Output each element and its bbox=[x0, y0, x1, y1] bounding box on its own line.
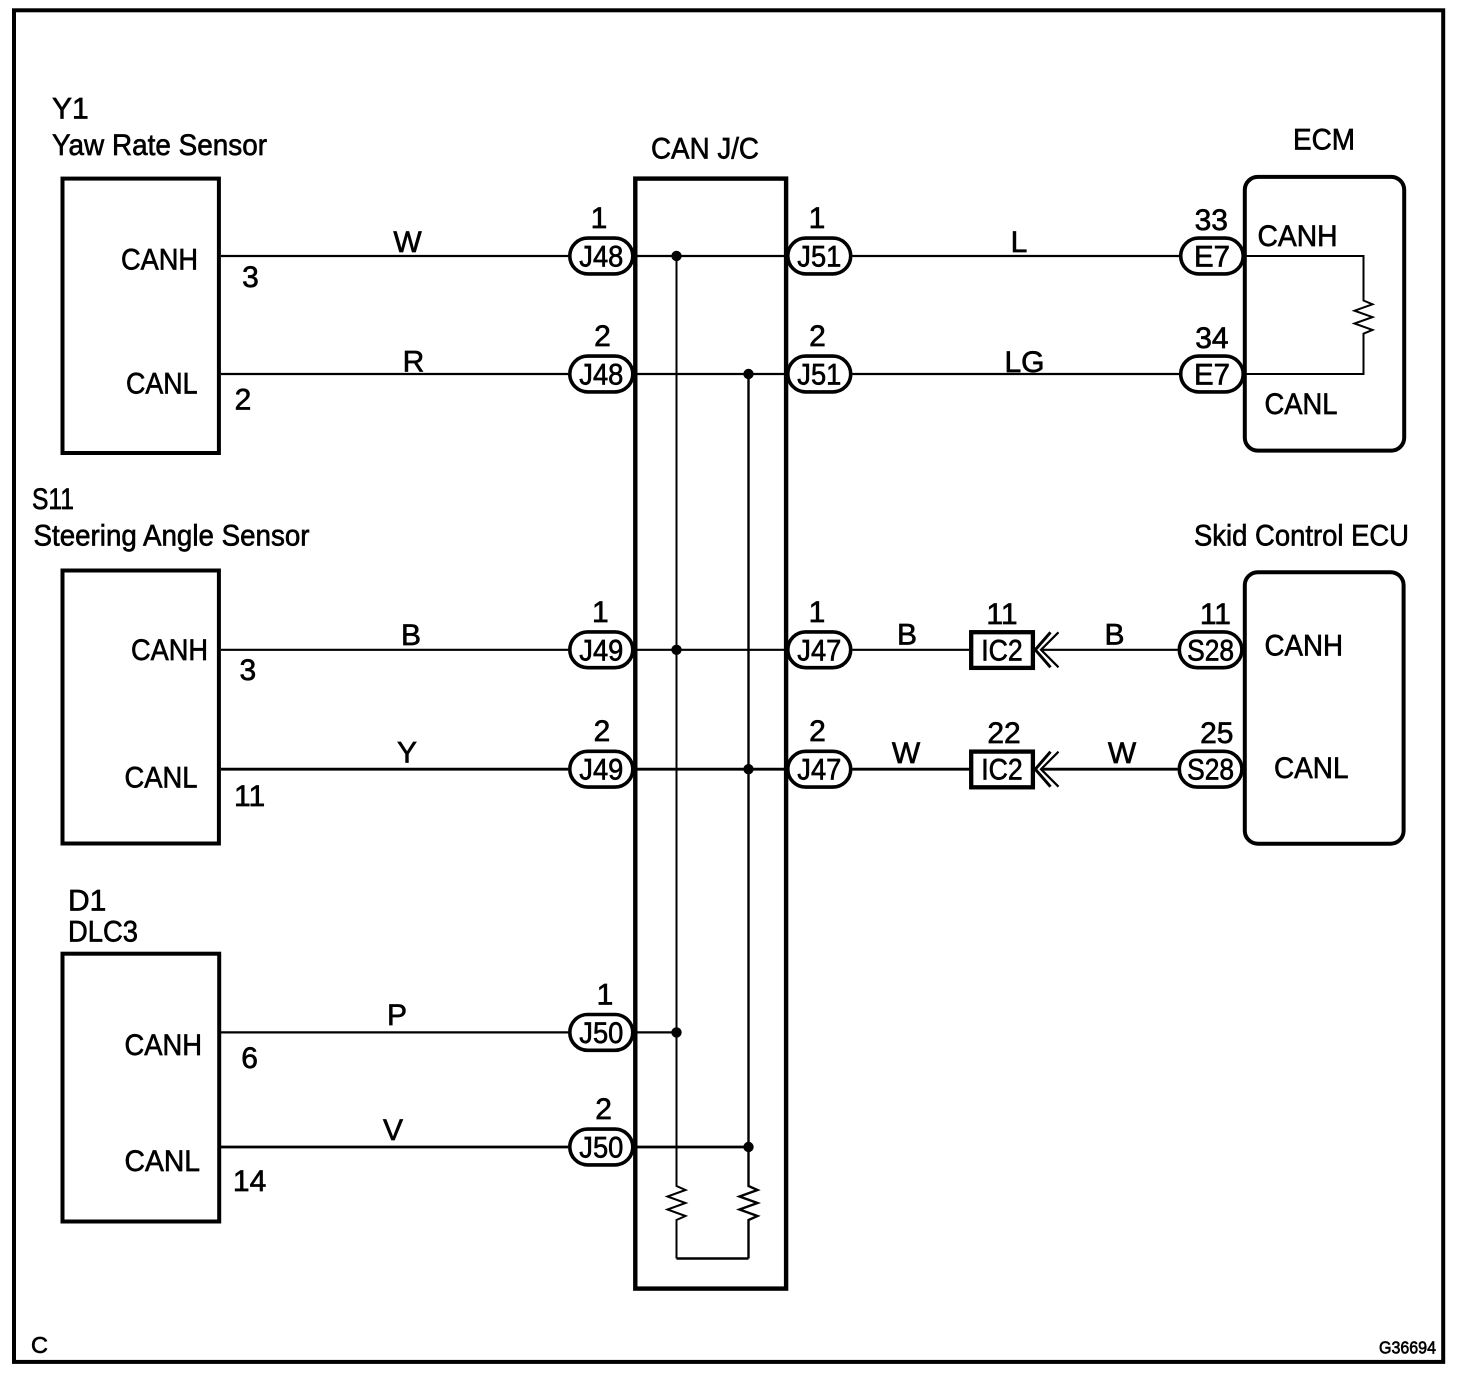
svg-text:S28: S28 bbox=[1187, 634, 1234, 667]
svg-text:J49: J49 bbox=[579, 754, 623, 787]
svg-text:25: 25 bbox=[1200, 717, 1233, 750]
svg-text:34: 34 bbox=[1195, 322, 1228, 355]
svg-text:ECM: ECM bbox=[1293, 124, 1355, 157]
svg-text:CANH: CANH bbox=[1258, 220, 1338, 253]
svg-text:Steering Angle Sensor: Steering Angle Sensor bbox=[34, 520, 310, 553]
svg-text:S28: S28 bbox=[1187, 754, 1234, 787]
svg-text:1: 1 bbox=[597, 978, 614, 1011]
svg-text:11: 11 bbox=[986, 598, 1017, 631]
svg-text:Y: Y bbox=[397, 737, 417, 770]
svg-text:B: B bbox=[401, 619, 421, 652]
svg-text:S11: S11 bbox=[32, 483, 74, 516]
svg-text:E7: E7 bbox=[1194, 359, 1230, 392]
svg-text:W: W bbox=[892, 737, 921, 770]
svg-text:L: L bbox=[1011, 226, 1028, 259]
svg-text:1: 1 bbox=[809, 202, 826, 235]
svg-text:P: P bbox=[387, 999, 407, 1032]
svg-text:CANH: CANH bbox=[125, 1029, 203, 1062]
svg-text:C: C bbox=[31, 1332, 48, 1358]
svg-text:Yaw Rate Sensor: Yaw Rate Sensor bbox=[52, 129, 267, 162]
svg-text:1: 1 bbox=[591, 202, 608, 235]
svg-text:W: W bbox=[1108, 737, 1137, 770]
svg-text:33: 33 bbox=[1195, 204, 1228, 237]
svg-text:W: W bbox=[393, 226, 422, 259]
svg-text:J49: J49 bbox=[579, 634, 623, 667]
svg-text:J48: J48 bbox=[579, 241, 623, 274]
svg-text:DLC3: DLC3 bbox=[68, 916, 138, 949]
svg-text:J51: J51 bbox=[797, 241, 841, 274]
svg-text:2: 2 bbox=[809, 320, 826, 353]
svg-text:14: 14 bbox=[233, 1165, 266, 1198]
svg-text:CANH: CANH bbox=[1265, 630, 1344, 663]
svg-text:1: 1 bbox=[809, 596, 826, 629]
svg-text:B: B bbox=[1104, 619, 1124, 652]
svg-text:E7: E7 bbox=[1194, 241, 1230, 274]
svg-text:D1: D1 bbox=[68, 885, 106, 918]
svg-text:2: 2 bbox=[594, 715, 611, 748]
svg-text:LG: LG bbox=[1004, 346, 1044, 379]
svg-text:J51: J51 bbox=[797, 359, 841, 392]
svg-text:J50: J50 bbox=[579, 1017, 623, 1050]
svg-text:CANL: CANL bbox=[1265, 388, 1338, 421]
svg-text:V: V bbox=[383, 1114, 403, 1147]
svg-text:IC2: IC2 bbox=[981, 754, 1023, 787]
svg-text:CANH: CANH bbox=[121, 244, 198, 277]
svg-text:CANL: CANL bbox=[126, 368, 198, 401]
svg-text:Skid Control ECU: Skid Control ECU bbox=[1194, 520, 1409, 553]
svg-text:R: R bbox=[403, 346, 425, 379]
svg-text:J50: J50 bbox=[579, 1132, 623, 1165]
svg-text:2: 2 bbox=[594, 320, 611, 353]
svg-text:2: 2 bbox=[235, 384, 252, 417]
svg-text:J47: J47 bbox=[797, 634, 841, 667]
svg-text:B: B bbox=[897, 619, 917, 652]
svg-text:3: 3 bbox=[239, 654, 256, 687]
svg-text:J47: J47 bbox=[797, 754, 841, 787]
svg-text:11: 11 bbox=[1200, 598, 1231, 631]
svg-text:6: 6 bbox=[241, 1042, 258, 1075]
svg-text:2: 2 bbox=[595, 1093, 612, 1126]
svg-text:G36694: G36694 bbox=[1379, 1338, 1436, 1358]
svg-text:CANL: CANL bbox=[125, 1145, 201, 1178]
svg-text:3: 3 bbox=[242, 261, 259, 294]
svg-text:J48: J48 bbox=[579, 359, 623, 392]
svg-text:CANH: CANH bbox=[131, 634, 208, 667]
svg-text:CAN J/C: CAN J/C bbox=[651, 132, 759, 165]
svg-text:Y1: Y1 bbox=[52, 93, 89, 126]
svg-text:CANL: CANL bbox=[1274, 752, 1349, 785]
svg-text:IC2: IC2 bbox=[981, 634, 1023, 667]
svg-text:CANL: CANL bbox=[125, 762, 198, 795]
svg-text:2: 2 bbox=[809, 715, 826, 748]
svg-text:1: 1 bbox=[592, 596, 609, 629]
svg-text:11: 11 bbox=[234, 780, 265, 813]
svg-text:22: 22 bbox=[987, 717, 1020, 750]
